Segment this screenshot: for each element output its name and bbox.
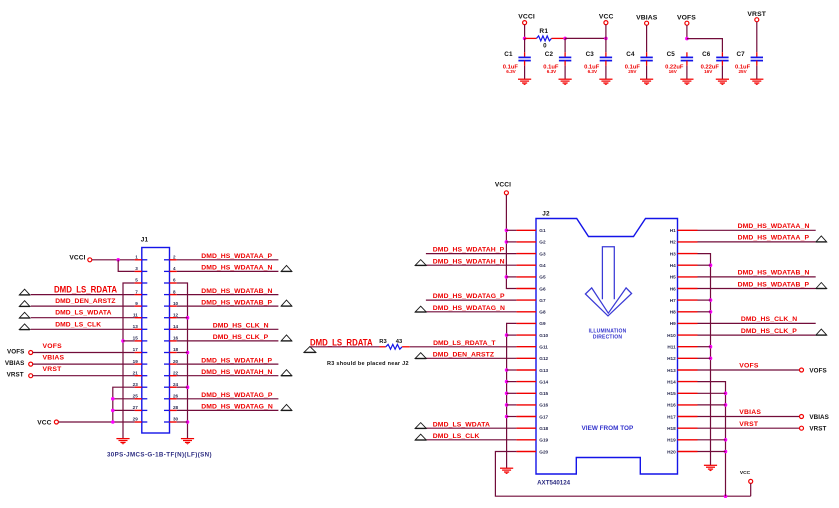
svg-text:G5: G5 [539, 275, 546, 280]
off-page connector triangle DMD_HS_WDATAH_N [415, 260, 426, 266]
node G16 ground [505, 403, 509, 407]
wire VCC to J1 pin 29 [59, 421, 135, 423]
ground below C2 [559, 79, 572, 85]
svg-text:R3: R3 [379, 339, 387, 345]
off-page connector triangle DMD_LS_WDATA [415, 423, 426, 429]
svg-text:DMD_HS_WDATAH_P: DMD_HS_WDATAH_P [201, 357, 272, 364]
ground below C4 [640, 79, 653, 85]
svg-text:11: 11 [133, 312, 138, 317]
svg-text:VOFS: VOFS [7, 348, 24, 355]
wire H14 to VCC rail [698, 382, 726, 497]
wire G1 stub [506, 229, 516, 231]
off-page connector triangle DMD_HS_WDATAA_P [816, 236, 827, 242]
svg-text:DMD_HS_WDATAA_N: DMD_HS_WDATAA_N [738, 223, 810, 230]
wire VCCI to J1 pin1 [92, 259, 135, 261]
wire VCCI rail to G6 [506, 195, 516, 289]
connector J2 body [536, 210, 678, 474]
node pin15 junction [121, 339, 125, 343]
svg-text:DMD_HS_WDATAH_N: DMD_HS_WDATAH_N [201, 369, 272, 376]
power symbol VCC at J1 pin 29 [37, 419, 58, 426]
svg-text:J1: J1 [141, 237, 149, 244]
svg-text:18: 18 [173, 347, 179, 352]
wire G15 stub [507, 392, 517, 394]
svg-text:C7: C7 [737, 51, 746, 58]
svg-text:VCC: VCC [37, 419, 51, 426]
node VCCI/C1/R1 junction [523, 37, 527, 41]
wire H11 stub [698, 346, 711, 348]
svg-text:H15: H15 [667, 391, 676, 396]
svg-text:13: 13 [133, 324, 139, 329]
svg-text:G20: G20 [539, 449, 548, 454]
resistor R1 [525, 28, 566, 50]
svg-text:G7: G7 [539, 298, 546, 303]
node G10 [505, 333, 509, 337]
illumination direction arrow [585, 247, 631, 316]
node H4 ground [709, 263, 713, 267]
off-page connector triangle DMD_LS_CLK [19, 324, 30, 330]
svg-text:6.3V: 6.3V [588, 69, 598, 74]
J2 pins and pin names [516, 228, 697, 454]
wire J1 DMD_HS_WDATAA_P [177, 259, 279, 261]
svg-text:DMD_LS_RDATA_T: DMD_LS_RDATA_T [433, 340, 496, 347]
capacitor C3 [584, 38, 612, 79]
svg-text:24: 24 [173, 382, 179, 387]
wire J1 DMD_HS_WDATAH_N [177, 375, 279, 377]
wire J1 pin5 to pin15 to ground [123, 283, 135, 439]
svg-text:28: 28 [173, 405, 179, 410]
off-page connector triangle DMD_HS_WDATAB_P [816, 283, 827, 289]
ground below J2 right [704, 465, 717, 471]
node J1 pin 12 [186, 316, 190, 320]
ground below C5 [680, 79, 693, 85]
svg-text:C6: C6 [702, 51, 711, 58]
svg-text:23: 23 [133, 382, 139, 387]
svg-text:G17: G17 [539, 414, 548, 419]
wire G5 stub [506, 276, 516, 278]
wire G14 stub [507, 381, 517, 383]
connector J1 body [141, 237, 170, 434]
ground below C7 [750, 79, 763, 85]
off-page connector triangle DMD_HS_CLK_P [816, 329, 827, 335]
wire H16 stub [698, 404, 726, 406]
svg-text:27: 27 [133, 405, 139, 410]
svg-text:DMD_DEN_ARSTZ: DMD_DEN_ARSTZ [55, 298, 115, 305]
svg-text:DMD_LS_WDATA: DMD_LS_WDATA [433, 421, 490, 428]
wire DMD_DEN_ARSTZ to J1 [31, 305, 135, 307]
svg-text:DMD_HS_CLK_N: DMD_HS_CLK_N [741, 316, 797, 323]
wire H8 stub [698, 311, 711, 313]
wire G16 stub [507, 404, 517, 406]
svg-text:VOFS: VOFS [809, 367, 826, 374]
wire DMD_HS_WDATAB_N from H5 [698, 276, 816, 278]
svg-text:G8: G8 [539, 310, 546, 315]
wire DMD_HS_WDATAH_N to G4 [426, 264, 517, 266]
svg-text:30: 30 [173, 417, 179, 422]
power symbol VRST (top) [747, 11, 766, 22]
svg-text:2: 2 [173, 255, 176, 260]
svg-text:G4: G4 [539, 263, 546, 268]
svg-text:H10: H10 [667, 333, 676, 338]
svg-text:G11: G11 [539, 345, 548, 350]
off-page connector triangle DMD_LS_RDATA (near R3) [304, 347, 316, 353]
svg-text:6.3V: 6.3V [547, 69, 557, 74]
wire G2 stub [506, 241, 516, 243]
wire G13 stub [507, 369, 517, 371]
svg-text:H8: H8 [670, 310, 676, 315]
wire J1 DMD_HS_WDATAH_P [177, 363, 279, 365]
node G2 VCCI [505, 240, 509, 244]
wire H7 stub [698, 299, 711, 301]
wire DMD_HS_WDATAH_P to G3 [426, 253, 517, 255]
wire J1 DMD_HS_CLK_P [177, 340, 279, 342]
wire VBIAS to J1 [33, 363, 135, 365]
power symbol VCC at J2 bottom [740, 470, 753, 483]
svg-text:DMD_HS_WDATAB_P: DMD_HS_WDATAB_P [201, 299, 272, 306]
wire VBIAS from H17 [698, 416, 800, 418]
power symbol VBIAS right [800, 414, 829, 421]
svg-text:1: 1 [135, 255, 138, 260]
wire pin15 stub [123, 340, 135, 342]
power symbol VCCI (top) [518, 14, 535, 25]
svg-text:VOFS: VOFS [739, 363, 759, 370]
svg-text:VCCI: VCCI [495, 182, 511, 189]
node H15 VCC [724, 392, 728, 396]
svg-text:H1: H1 [670, 228, 676, 233]
svg-text:C5: C5 [667, 51, 676, 58]
J1 pins and pin numbers [133, 255, 179, 423]
svg-text:H13: H13 [667, 368, 676, 373]
svg-text:4: 4 [173, 266, 176, 271]
svg-text:DMD_HS_WDATAA_P: DMD_HS_WDATAA_P [738, 235, 810, 242]
svg-text:12: 12 [173, 312, 179, 317]
svg-text:VRST: VRST [7, 372, 24, 379]
svg-text:14: 14 [173, 324, 179, 329]
svg-text:DMD_LS_CLK: DMD_LS_CLK [433, 433, 480, 440]
svg-text:15: 15 [133, 336, 139, 341]
wire C2 to C3/VCC bus [565, 37, 606, 39]
wire DMD_DEN_ARSTZ to G12 [426, 357, 517, 359]
power symbol VCCI at J2 [495, 182, 511, 195]
svg-text:6.3V: 6.3V [506, 69, 516, 74]
wire DMD_HS_CLK_P from H10 [698, 334, 816, 336]
wire H15 stub [698, 392, 726, 394]
node pin25 [111, 397, 115, 401]
svg-text:G2: G2 [539, 240, 546, 245]
svg-text:16: 16 [173, 336, 179, 341]
svg-text:G3: G3 [539, 251, 546, 256]
capacitor C6 [701, 51, 729, 79]
svg-text:H14: H14 [667, 379, 676, 384]
svg-text:DMD_HS_WDATAB_N: DMD_HS_WDATAB_N [201, 288, 272, 295]
wire DMD_LS_RDATA to R3 [310, 346, 380, 348]
svg-text:17: 17 [133, 347, 139, 352]
node H8 ground [709, 310, 713, 314]
wire H20 stub [698, 451, 726, 453]
wire VOFS down to junction [686, 25, 688, 38]
svg-text:H3: H3 [670, 251, 676, 256]
node G5 VCCI [505, 275, 509, 279]
wire J1 DMD_HS_WDATAG_P [177, 398, 279, 400]
wire VOFS from H13 [698, 369, 800, 371]
wire H3 to ground rail [698, 254, 711, 466]
node G15 ground [505, 392, 509, 396]
svg-text:VOFS: VOFS [43, 343, 63, 350]
svg-text:H18: H18 [667, 426, 676, 431]
wire J1 DMD_HS_WDATAA_N [177, 270, 279, 272]
svg-text:VBIAS: VBIAS [5, 360, 25, 367]
svg-text:29: 29 [133, 417, 139, 422]
wire VCC down to bus [750, 484, 752, 497]
off-page connector triangle DMD_DEN_ARSTZ [415, 353, 426, 359]
svg-text:7: 7 [135, 289, 138, 294]
wire G10 stub [507, 334, 517, 336]
node bottom VCC junction [724, 494, 728, 498]
node J1 pin 24 [186, 385, 190, 389]
svg-text:H17: H17 [667, 414, 676, 419]
svg-text:DMD_HS_WDATAH_P: DMD_HS_WDATAH_P [433, 247, 505, 254]
wire DMD_LS_RDATA_T to J2 G11 [410, 346, 517, 348]
svg-text:H16: H16 [667, 403, 676, 408]
svg-text:G6: G6 [539, 286, 546, 291]
power symbol VOFS (top) [677, 14, 696, 25]
wire VCC to bus [605, 25, 607, 39]
wire DMD_LS_WDATA to G18 [426, 427, 517, 429]
svg-text:DMD_HS_CLK_P: DMD_HS_CLK_P [213, 334, 269, 341]
node G13 ground [505, 368, 509, 372]
svg-text:G16: G16 [539, 403, 548, 408]
svg-text:VBIAS: VBIAS [43, 355, 65, 362]
svg-text:VCC: VCC [740, 470, 751, 476]
off-page connector triangle DMD_HS_CLK_P [281, 335, 292, 341]
wire pin25 stub [113, 398, 135, 400]
wire H12 stub [698, 357, 711, 359]
node H19 VCC [724, 438, 728, 442]
wire DMD_HS_WDATAG_N to G8 [426, 311, 517, 313]
wire junction to C6 [687, 39, 723, 53]
svg-text:DMD_HS_WDATAA_N: DMD_HS_WDATAA_N [201, 265, 272, 272]
node G14 ground [505, 380, 509, 384]
svg-text:DMD_HS_WDATAH_N: DMD_HS_WDATAH_N [433, 258, 505, 265]
power symbol VBIAS (top) [636, 14, 658, 25]
wire J1 DMD_HS_WDATAG_N [177, 409, 279, 411]
svg-text:21: 21 [133, 370, 139, 375]
capacitor C4 [625, 51, 653, 79]
svg-text:G18: G18 [539, 426, 548, 431]
off-page connector triangle DMD_HS_WDATAB_P [281, 300, 292, 306]
svg-text:VOFS: VOFS [677, 14, 696, 21]
wire VOFS to J1 [33, 352, 135, 354]
svg-text:VBIAS: VBIAS [636, 14, 658, 21]
svg-text:C4: C4 [626, 51, 635, 58]
wire J1 DMD_HS_WDATAB_P [177, 305, 279, 307]
wire VRST from H18 [698, 427, 800, 429]
svg-text:16V: 16V [704, 69, 713, 74]
svg-text:DIRECTION: DIRECTION [593, 335, 622, 341]
node J1 pin 30 [186, 420, 190, 424]
power symbol VBIAS at J1 [5, 360, 33, 367]
svg-text:C3: C3 [586, 51, 595, 58]
svg-text:G10: G10 [539, 333, 548, 338]
svg-text:DMD_HS_CLK_N: DMD_HS_CLK_N [213, 323, 269, 330]
svg-text:G15: G15 [539, 391, 548, 396]
resistor R3 [379, 339, 410, 349]
node VCC/C3 junction [604, 37, 608, 41]
wire pin 12 stub [177, 317, 188, 319]
svg-text:20: 20 [173, 359, 179, 364]
svg-text:VIEW FROM TOP: VIEW FROM TOP [582, 425, 634, 432]
node R1/C2 junction [563, 37, 567, 41]
svg-text:DMD_HS_CLK_P: DMD_HS_CLK_P [741, 328, 797, 335]
svg-text:VRST: VRST [809, 426, 826, 433]
off-page connector triangle DMD_LS_CLK [415, 434, 426, 440]
wire VCCI to bus [524, 25, 526, 39]
svg-text:VRST: VRST [747, 11, 766, 18]
svg-text:DMD_HS_WDATAB_P: DMD_HS_WDATAB_P [738, 281, 810, 288]
off-page connector triangle DMD_LS_WDATA [19, 312, 30, 318]
svg-text:H2: H2 [670, 240, 676, 245]
svg-text:30PS-JMCS-G-1B-TF(N)(LF)(SN): 30PS-JMCS-G-1B-TF(N)(LF)(SN) [107, 452, 212, 459]
svg-text:H12: H12 [667, 356, 676, 361]
wire DMD_HS_WDATAA_N from H1 [698, 229, 816, 231]
svg-text:H7: H7 [670, 298, 676, 303]
svg-text:25V: 25V [739, 69, 748, 74]
node H7 ground [709, 298, 713, 302]
svg-text:DMD_HS_WDATAG_N: DMD_HS_WDATAG_N [433, 305, 505, 312]
wire DMD_LS_CLK to G19 [426, 439, 517, 441]
wire VRST to J1 [33, 375, 135, 377]
node H16 VCC [724, 403, 728, 407]
node VCCI pin1/pin3 [116, 258, 120, 262]
wire DMD_LS_RDATA to J1 [31, 294, 135, 296]
node G17 ground [505, 415, 509, 419]
svg-text:22: 22 [173, 370, 179, 375]
wire DMD_LS_WDATA to J1 [31, 317, 135, 319]
svg-text:26: 26 [173, 394, 179, 399]
svg-text:VRST: VRST [739, 421, 759, 428]
label ILLUMINATION DIRECTION [589, 328, 627, 340]
wire G20 to bottom VCC bus [495, 452, 750, 497]
svg-text:0: 0 [543, 43, 547, 50]
svg-text:C1: C1 [504, 51, 513, 58]
svg-text:H6: H6 [670, 286, 676, 291]
svg-text:G19: G19 [539, 438, 548, 443]
node pin29 [111, 420, 115, 424]
svg-text:H5: H5 [670, 275, 676, 280]
svg-text:DMD_DEN_ARSTZ: DMD_DEN_ARSTZ [433, 351, 494, 358]
wire J1 DMD_HS_CLK_N [177, 328, 279, 330]
svg-text:AXT540124: AXT540124 [537, 480, 571, 487]
ground below J2 left [500, 468, 513, 474]
svg-text:3: 3 [135, 266, 138, 271]
svg-text:DMD_LS_WDATA: DMD_LS_WDATA [55, 310, 111, 317]
svg-text:DMD_HS_WDATAG_P: DMD_HS_WDATAG_P [433, 293, 505, 300]
power symbol VCCI at J1 pin 1 [69, 254, 91, 261]
svg-text:19: 19 [133, 359, 139, 364]
wire H4 stub [698, 264, 711, 266]
svg-text:G12: G12 [539, 356, 548, 361]
svg-text:DMD_LS_RDATA: DMD_LS_RDATA [310, 337, 373, 347]
wire H19 stub [698, 439, 726, 441]
svg-text:H11: H11 [667, 345, 676, 350]
svg-text:6: 6 [173, 278, 176, 283]
svg-text:VBIAS: VBIAS [739, 409, 761, 416]
wire pin27 stub [113, 409, 135, 411]
svg-text:25: 25 [133, 394, 139, 399]
wire DMD_HS_WDATAA_P from H2 [698, 241, 816, 243]
svg-text:R3 should be placed near J2: R3 should be placed near J2 [327, 361, 409, 367]
node pin27 [111, 409, 115, 413]
wire DMD_HS_WDATAB_P from H6 [698, 288, 816, 290]
node J1 pin 18 [186, 351, 190, 355]
svg-text:25V: 25V [628, 69, 637, 74]
node G1 VCCI [505, 229, 509, 233]
power symbol VOFS right [800, 367, 827, 374]
svg-text:DMD_HS_WDATAA_P: DMD_HS_WDATAA_P [201, 253, 272, 260]
node VOFS/C5/C6 junction [685, 37, 689, 41]
off-page connector triangle DMD_HS_WDATAG_N [281, 404, 292, 410]
capacitor C1 [503, 38, 531, 79]
svg-text:DMD_LS_RDATA: DMD_LS_RDATA [54, 285, 118, 295]
svg-text:H19: H19 [667, 438, 676, 443]
svg-text:8: 8 [173, 289, 176, 294]
svg-text:G1: G1 [539, 228, 546, 233]
ground below C1 [518, 79, 531, 85]
off-page connector triangle DMD_HS_WDATAA_N [281, 265, 292, 271]
svg-text:J2: J2 [542, 210, 550, 217]
svg-text:G9: G9 [539, 321, 546, 326]
ground below J1 left [116, 439, 129, 445]
wire pin 24 stub [177, 386, 188, 388]
svg-text:DMD_HS_WDATAB_N: DMD_HS_WDATAB_N [738, 270, 810, 277]
svg-text:DMD_HS_WDATAG_P: DMD_HS_WDATAG_P [201, 392, 273, 399]
svg-text:VRST: VRST [43, 366, 63, 373]
svg-text:C2: C2 [545, 51, 554, 58]
svg-text:VBIAS: VBIAS [809, 414, 829, 421]
wire pin 30 stub [177, 421, 188, 423]
svg-text:9: 9 [135, 301, 138, 306]
svg-text:H9: H9 [670, 321, 676, 326]
off-page connector triangle DMD_DEN_ARSTZ [19, 301, 30, 307]
capacitor C7 [735, 51, 763, 79]
svg-text:G14: G14 [539, 379, 548, 384]
wire VRST to C7 [756, 22, 758, 53]
wire J1 DMD_HS_WDATAB_N [177, 294, 279, 296]
wire J1 pins 23/25/27 bus [113, 387, 135, 422]
wire J1 pin6 to even-pin ground bus [177, 283, 188, 439]
ground below C3 [599, 79, 612, 85]
capacitor C5 [665, 51, 693, 79]
node H20 VCC [724, 450, 728, 454]
ground below J1 right [181, 439, 194, 445]
wire VBIAS to C4 [646, 25, 648, 52]
power symbol VOFS at J1 [7, 348, 33, 355]
svg-text:H4: H4 [670, 263, 676, 268]
svg-text:VCC: VCC [599, 14, 614, 21]
svg-text:R1: R1 [539, 28, 548, 35]
wire DMD_HS_WDATAG_P to G7 [426, 299, 517, 301]
off-page connector triangle DMD_LS_RDATA [19, 289, 30, 295]
svg-text:43: 43 [396, 339, 403, 345]
svg-text:ILLUMINATION: ILLUMINATION [589, 328, 627, 334]
svg-text:H20: H20 [667, 449, 676, 454]
svg-text:G13: G13 [539, 368, 548, 373]
svg-text:DMD_HS_WDATAG_N: DMD_HS_WDATAG_N [201, 404, 273, 411]
ground below C6 [716, 79, 729, 85]
svg-text:VCCI: VCCI [518, 14, 535, 21]
power symbol VRST at J1 [7, 372, 33, 379]
wire pin 18 stub [177, 352, 188, 354]
capacitor C2 [543, 38, 571, 79]
